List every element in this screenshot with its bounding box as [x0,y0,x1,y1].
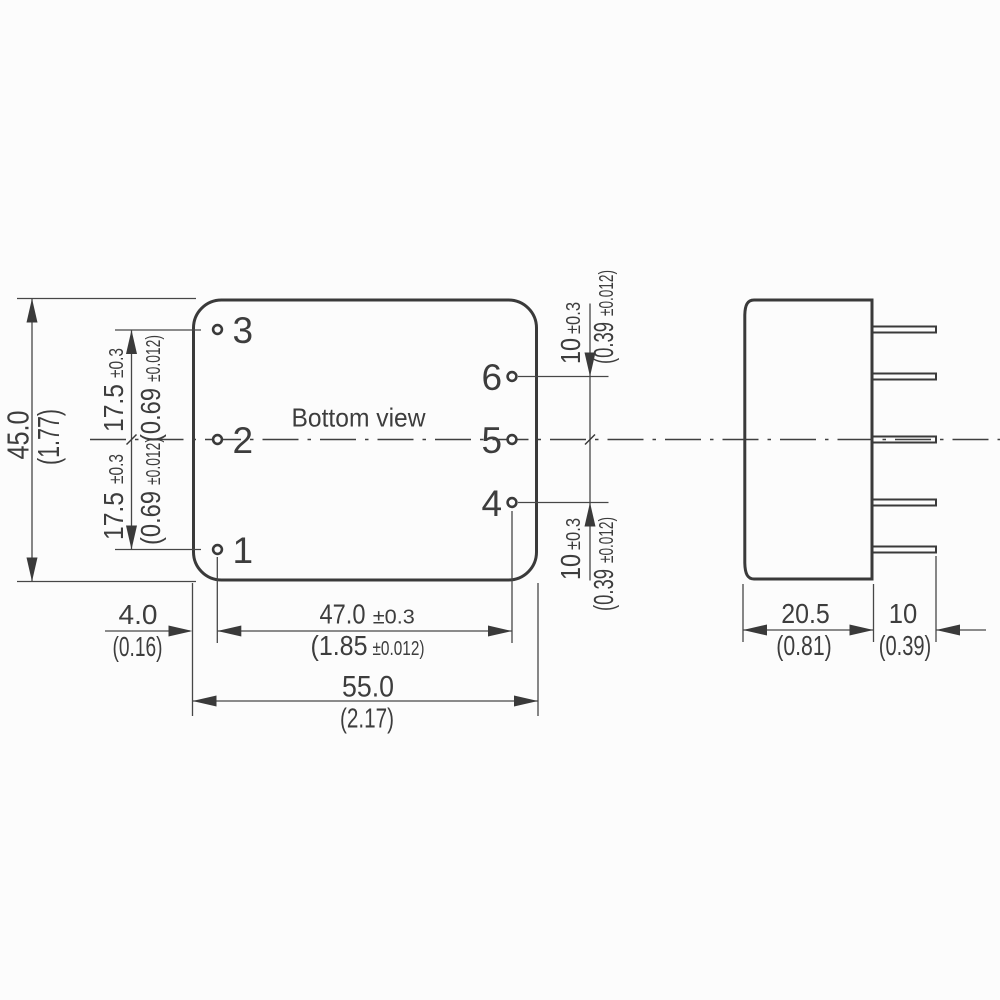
dim 45.0 arrow up [27,299,38,323]
svg-text:(0.16): (0.16) [113,631,163,662]
side view pin row 3 [874,327,937,333]
pin 6 pad [508,372,517,381]
svg-text:(1.85: (1.85 [311,630,368,661]
svg-text:6: 6 [482,357,503,398]
dim 20.5 arrow left [743,625,767,636]
dim 17.5 arrow up [126,330,137,354]
svg-text:10: 10 [555,338,586,364]
svg-text:(0.39: (0.39 [588,569,619,611]
side view pin row 4 [874,500,937,506]
dim 17.5 extension line pin3 [115,329,201,331]
dim 10 line [589,304,591,581]
svg-text:5: 5 [482,420,503,461]
dim 10 lower extension line pin4 [518,502,609,504]
side view body outline [745,300,872,579]
svg-text:3: 3 [233,310,254,351]
dim 47.0 line [217,630,512,632]
dim 55.0 arrow left [193,696,217,707]
dim 20.5 line [743,629,874,631]
svg-text:(0.39: (0.39 [588,322,619,364]
dim 45.0 arrow down [27,558,38,582]
svg-text:4: 4 [482,483,503,524]
svg-text:(0.69: (0.69 [135,491,166,545]
svg-text:±0.3: ±0.3 [373,607,415,629]
svg-text:47.0: 47.0 [320,599,366,630]
extension line side pin end [935,556,937,642]
dim 20.5 arrow right [850,625,874,636]
svg-text:55.0: 55.0 [342,671,394,704]
svg-text:Bottom view: Bottom view [292,403,426,433]
svg-text:10: 10 [889,598,918,629]
svg-text:4.0: 4.0 [119,599,158,630]
dim 17.5 extension line pin1 [115,549,201,551]
pin 1 pad [213,545,222,554]
dim 45.0 extension line top [17,298,196,300]
svg-text:20.5: 20.5 [781,598,830,629]
dim 10 lower arrow up [585,503,596,527]
extension line side body left [742,584,744,642]
centerline [90,439,1000,441]
svg-text:(2.17): (2.17) [340,703,394,734]
dim 10 side arrow [936,625,960,636]
extension line body left [192,583,194,716]
svg-text:10: 10 [555,554,586,580]
svg-text:1: 1 [233,530,254,571]
dim 47.0 arrow left [217,626,241,637]
dim 10 upper extension line pin6 [518,376,609,378]
side view pin row 6 [874,374,937,380]
extension line pin column left [216,557,218,643]
dim 17.5 arrow down [126,526,137,550]
dim 4.0 arrow right [169,626,193,637]
svg-text:±0.012): ±0.012) [143,335,165,382]
extension line body right [537,583,539,716]
svg-text:(0.69: (0.69 [135,388,166,442]
pin 5 pad [508,435,517,444]
svg-text:(0.81): (0.81) [776,630,832,661]
dim 4.0 line [105,630,190,632]
svg-text:±0.3: ±0.3 [106,348,128,378]
dim 17.5 center tick [127,435,137,445]
dim 45.0 extension line bottom [17,581,196,583]
svg-text:17.5: 17.5 [98,492,129,540]
side view pin row 5 [874,437,937,443]
svg-text:±0.012): ±0.012) [596,270,618,316]
svg-text:2: 2 [233,420,254,461]
pin 2 pad [213,435,222,444]
svg-text:±0.012): ±0.012) [596,517,618,563]
dim 10 upper arrow down [585,353,596,377]
svg-text:±0.3: ±0.3 [563,302,585,334]
svg-text:±0.012): ±0.012) [143,438,165,485]
svg-text:±0.012): ±0.012) [373,638,425,660]
svg-text:±0.3: ±0.3 [106,454,128,484]
dim 55.0 arrow right [514,696,538,707]
svg-text:±0.3: ±0.3 [563,518,585,550]
dim 55.0 line [193,700,539,702]
side view pin row 1 [874,547,937,553]
extension line pin column right [511,511,513,643]
dim 10 side line [936,629,986,631]
svg-text:(0.39): (0.39) [879,630,932,661]
dim 45.0 line [31,299,33,581]
bottom view body outline [194,300,537,580]
pin 4 pad [508,498,517,507]
dim 47.0 arrow right [488,626,512,637]
dim 17.5 line [131,330,133,550]
pin 3 pad [213,325,222,334]
extension line side body right [873,584,875,642]
dim 10 center tick [585,435,595,445]
svg-text:(1.77): (1.77) [31,409,66,465]
svg-text:17.5: 17.5 [98,384,129,432]
